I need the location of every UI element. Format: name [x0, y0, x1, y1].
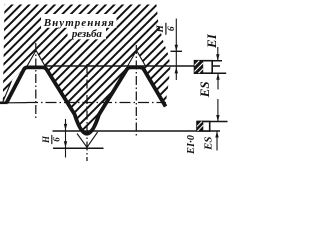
white interior of theoretical sharp crest triangle, groove 1: [27, 50, 46, 66]
dimension H/6 bottom: upper arrowhead: [64, 124, 67, 130]
dimension H/6 top right: lower arrowhead: [175, 67, 178, 74]
thin theoretical flank line at far-left slope: [3, 81, 12, 103]
svg-text:H: H: [156, 24, 166, 33]
svg-text:6: 6: [52, 137, 62, 142]
dimension ES (bottom box): arrowhead: [215, 131, 218, 138]
dimension H/6 top right: line: [175, 19, 177, 81]
svg-text:EI: EI: [204, 33, 219, 49]
pitch-diameter tolerance zone box (top): [195, 61, 213, 73]
dimension H/6 top right: upper arrowhead: [175, 45, 178, 52]
thin theoretical sharp flank lines, groove 1: [27, 50, 46, 66]
svg-text:ES: ES: [203, 136, 215, 150]
dimension H/6 bottom: line: [65, 119, 67, 158]
svg-text:резьба: резьба: [71, 28, 103, 40]
dimension EI (top box): line: [217, 47, 219, 61]
dimension EI (bottom box): arrowhead: [216, 115, 219, 122]
svg-text:H: H: [41, 135, 51, 144]
dimension ES (bottom box): line: [216, 131, 218, 151]
centerline of groove 1: [35, 43, 37, 120]
white knockout behind text label: [41, 14, 117, 39]
centerline of V tooth: [86, 64, 88, 161]
dimension H/6 top right: apex tick: [171, 50, 183, 52]
dimension ES (top box): line: [217, 73, 219, 89]
white interior of theoretical sharp crest triangle, groove 2: [127, 50, 146, 66]
root line, thin continuation: [7, 102, 27, 104]
root line, thick stub at left edge: [0, 102, 8, 105]
hatched section of internal thread (nut) material: [3, 5, 171, 134]
dimension H/6 top right: fraction label: [156, 23, 177, 35]
dimension H/6 bottom: lower arrowhead: [64, 141, 67, 148]
major-diameter tolerance zone box: hatched half: [197, 122, 203, 132]
major-diameter tolerance zone box (bottom): [197, 122, 210, 132]
thin theoretical sharp apex V below tooth root: [77, 132, 98, 147]
pitch-diameter tolerance zone box: hatched half: [195, 61, 204, 73]
basic profile line (EI=0 level): [53, 130, 221, 132]
dimension EI (top box): arrowhead: [216, 54, 219, 61]
major-diameter tolerance zone box: top edge extension: [197, 121, 228, 123]
dimension H/6 bottom: fraction label: [41, 135, 61, 144]
thin theoretical sharp flank lines, groove 2: [127, 50, 146, 66]
dimension ES (top box): arrowhead: [216, 73, 219, 80]
major-diameter dash-dot line: [27, 102, 166, 104]
svg-text:ES: ES: [197, 81, 212, 98]
theoretical sharp root apex line: [53, 147, 104, 149]
dimension EI (bottom box): line: [217, 99, 219, 122]
text label: Внутренняя резьба (internal thread): [43, 17, 114, 40]
centerline of groove 2: [135, 45, 137, 138]
pitch-diameter tolerance zone box: bottom edge extension: [194, 72, 226, 74]
svg-text:EI·0: EI·0: [186, 134, 197, 155]
crest (nominal profile) line: [44, 65, 220, 67]
svg-text:6: 6: [167, 26, 177, 31]
pitch-diameter tolerance zone box: top edge extension: [195, 60, 223, 62]
thick actual thread profile outline: [7, 67, 166, 133]
